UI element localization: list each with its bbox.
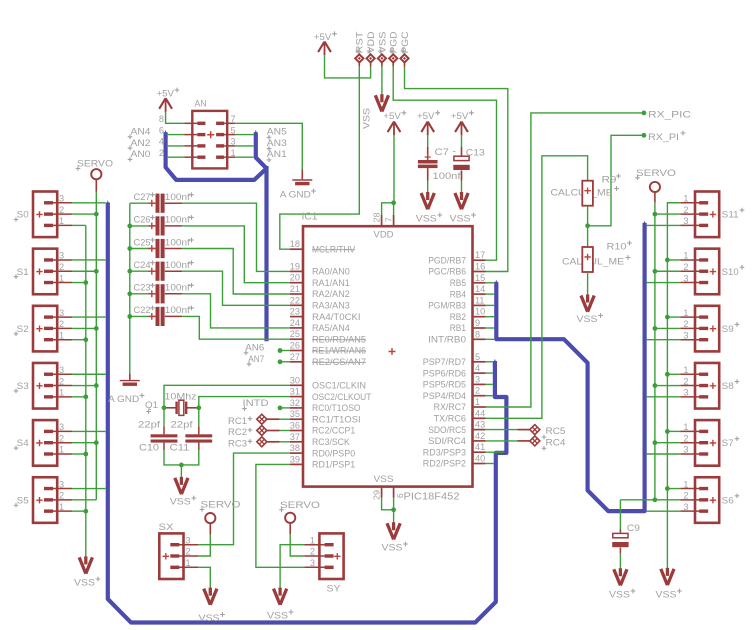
junction xyxy=(278,348,283,353)
ground VSS (crystal) xyxy=(170,477,196,507)
wire S6 pin2 to +5V rail xyxy=(655,499,680,501)
connector S10 xyxy=(680,249,744,295)
svg-text:36: 36 xyxy=(290,421,300,431)
connector AN header xyxy=(159,99,236,169)
wire S2 pin3 to bus xyxy=(72,316,106,318)
power +5V (AN pin 8) xyxy=(157,88,180,112)
svg-text:VSS: VSS xyxy=(74,578,95,588)
svg-text:1: 1 xyxy=(231,148,236,158)
svg-text:2: 2 xyxy=(59,262,64,272)
pin 7 VDD (top) xyxy=(384,215,393,227)
svg-text:44: 44 xyxy=(475,408,485,418)
ground VSS (C13) xyxy=(450,192,476,224)
pin 6 VSS (bottom) xyxy=(394,486,405,498)
svg-text:R10: R10 xyxy=(607,242,627,252)
bus AN right segment xyxy=(256,132,267,168)
svg-text:AN3: AN3 xyxy=(267,138,287,148)
svg-text:42: 42 xyxy=(475,431,485,441)
svg-text:INT/RB0: INT/RB0 xyxy=(428,335,466,345)
capacitor C10 xyxy=(138,408,177,453)
svg-text:1: 1 xyxy=(683,422,688,432)
pin 37 RC3/SCK xyxy=(290,432,351,447)
svg-text:AN6: AN6 xyxy=(245,343,264,353)
svg-text:AN4: AN4 xyxy=(131,127,151,137)
svg-text:32: 32 xyxy=(290,398,300,408)
svg-text:RC4: RC4 xyxy=(546,437,566,447)
junction xyxy=(127,224,132,229)
svg-text:3: 3 xyxy=(683,273,688,283)
svg-text:RE2/CS/AN7: RE2/CS/AN7 xyxy=(312,357,366,367)
pin 43 SDO/RC5 xyxy=(428,420,485,435)
capacitor C27 xyxy=(130,192,194,213)
svg-text:OSC1/CLKIN: OSC1/CLKIN xyxy=(312,381,366,391)
svg-text:RA0/AN0: RA0/AN0 xyxy=(312,267,350,277)
svg-text:6: 6 xyxy=(159,125,164,135)
connector S4 xyxy=(14,420,72,466)
pin 32 RC0/T1OSO xyxy=(290,398,361,413)
node AN6 xyxy=(244,343,290,356)
wire S11 pin3 to bus xyxy=(647,224,681,226)
port RC1 xyxy=(228,414,267,426)
wire SERVO to SX pin2 xyxy=(198,535,210,556)
pad PGC xyxy=(400,31,410,66)
junction xyxy=(653,497,658,502)
junction xyxy=(94,383,99,388)
svg-text:3: 3 xyxy=(59,194,64,204)
svg-text:RB4: RB4 xyxy=(450,289,466,299)
svg-text:35: 35 xyxy=(290,409,300,419)
svg-text:RD1/PSP1: RD1/PSP1 xyxy=(312,460,355,470)
connector SX xyxy=(159,522,199,579)
svg-text:40: 40 xyxy=(475,454,485,464)
wire C26 to PIC xyxy=(182,226,290,283)
svg-text:PSP4/RD4: PSP4/RD4 xyxy=(423,391,466,401)
svg-text:2: 2 xyxy=(683,205,688,215)
wire S8 pin2 to +5V rail xyxy=(655,385,680,387)
svg-text:1: 1 xyxy=(683,251,688,261)
svg-text:39: 39 xyxy=(290,454,300,464)
wire RX_PIC to pin 1 RX/RC7 xyxy=(485,113,644,407)
svg-text:VSS: VSS xyxy=(267,611,288,621)
svg-text:3: 3 xyxy=(186,535,191,545)
wire S3 pin1 to VSS rail xyxy=(72,396,86,398)
pin 2 PSP4/RD4 xyxy=(423,386,486,401)
wire S9 pin3 to bus xyxy=(647,339,681,341)
svg-text:VSS: VSS xyxy=(577,314,598,324)
svg-text:S1: S1 xyxy=(17,267,29,277)
wire S10 pin2 to +5V rail xyxy=(655,270,680,272)
wire S0 pin1 to VSS rail xyxy=(72,224,86,226)
svg-text:9: 9 xyxy=(475,318,480,328)
svg-text:18: 18 xyxy=(290,239,300,249)
power +5V (top) xyxy=(314,31,337,55)
ground VSS (R10) xyxy=(577,295,603,325)
wire S2 pin2 to +5V rail xyxy=(72,327,96,329)
connector S3 xyxy=(14,363,72,409)
pin 27 RE2/CS/AN7 xyxy=(290,352,366,367)
svg-text:RC3: RC3 xyxy=(228,438,247,448)
wire VSS pins to ground xyxy=(382,498,396,524)
svg-text:SDI/RC4: SDI/RC4 xyxy=(428,436,466,446)
svg-text:A GND: A GND xyxy=(280,190,311,200)
wire VDD pad to +5V xyxy=(325,55,371,78)
svg-text:100nf: 100nf xyxy=(165,215,190,225)
pin 36 RC2/CCP1 xyxy=(290,421,355,436)
svg-text:20: 20 xyxy=(290,273,300,283)
pin 16 PGC/RB6 xyxy=(428,262,485,277)
svg-text:RC1: RC1 xyxy=(228,416,247,426)
junction xyxy=(83,452,88,457)
port RC4 xyxy=(530,436,566,451)
junction xyxy=(665,258,670,263)
junction xyxy=(94,326,99,331)
svg-text:IC1: IC1 xyxy=(302,212,318,223)
svg-text:RC0/T1OSO: RC0/T1OSO xyxy=(312,403,361,413)
svg-text:C13: C13 xyxy=(466,147,485,157)
svg-text:2: 2 xyxy=(683,262,688,272)
connector S1 xyxy=(14,249,72,295)
svg-text:S4: S4 xyxy=(17,438,29,448)
svg-text:SERVO: SERVO xyxy=(280,500,320,510)
connector S8 xyxy=(680,363,739,409)
wire caps to VSS xyxy=(164,443,199,478)
label AN3 xyxy=(267,138,287,151)
pin 4 PSP6/RD6 xyxy=(423,363,486,378)
svg-text:RA5/AN4: RA5/AN4 xyxy=(312,323,350,333)
svg-text:2: 2 xyxy=(475,386,480,396)
svg-text:S9: S9 xyxy=(722,324,734,334)
pin 42 SDI/RC4 xyxy=(428,431,485,446)
pin 29 VSS (bottom) xyxy=(373,486,382,500)
junction xyxy=(653,440,658,445)
wire S7 pin3 to bus xyxy=(647,453,681,455)
capacitor C7 xyxy=(418,147,449,168)
wire SERVO to SY pin2 xyxy=(290,534,304,556)
svg-text:C9: C9 xyxy=(627,523,640,533)
ground AGND (caps) xyxy=(108,374,144,404)
wire +5V to C7 xyxy=(427,135,429,147)
wire S11 pin2 to +5V rail xyxy=(655,213,680,215)
svg-text:100nf: 100nf xyxy=(433,171,462,181)
svg-text:10: 10 xyxy=(475,307,485,317)
svg-text:RC3/SCK: RC3/SCK xyxy=(312,437,351,447)
svg-text:S6: S6 xyxy=(722,495,734,505)
svg-text:3: 3 xyxy=(683,388,688,398)
junction xyxy=(94,440,99,445)
svg-text:2: 2 xyxy=(310,547,315,557)
wire C27 to PIC xyxy=(182,203,290,271)
svg-text:RC2: RC2 xyxy=(228,427,247,437)
junction xyxy=(585,223,590,228)
pin 23 RA4/T0CKI xyxy=(290,307,361,322)
wire S8 pin3 to bus xyxy=(647,396,681,398)
bus AN vertical xyxy=(264,166,268,341)
svg-text:AN2: AN2 xyxy=(131,138,151,148)
svg-text:5: 5 xyxy=(231,125,236,135)
junction xyxy=(665,486,670,491)
ground VSS (right rail) xyxy=(656,568,682,600)
pin 28 VDD (top) xyxy=(373,212,382,227)
pin 1 RX/RC7 xyxy=(434,397,486,412)
svg-text:25: 25 xyxy=(290,329,300,339)
svg-text:VSS: VSS xyxy=(382,543,403,553)
junction xyxy=(653,212,658,217)
svg-text:43: 43 xyxy=(475,420,485,430)
svg-text:C23: C23 xyxy=(134,283,151,293)
wire PGD net to pin 17 xyxy=(393,67,496,261)
ground VSS (left rail) xyxy=(74,556,100,587)
pin 39 RD1/PSP1 xyxy=(290,454,355,469)
svg-text:A GND: A GND xyxy=(108,394,139,404)
svg-text:100nf: 100nf xyxy=(165,283,190,293)
connector S0 xyxy=(14,192,72,238)
svg-text:2: 2 xyxy=(59,205,64,215)
wire pin 42 to RC4 port xyxy=(485,440,530,442)
svg-text:RA3/AN3: RA3/AN3 xyxy=(312,301,350,311)
pin 35 RC1/T1OSI xyxy=(290,409,361,424)
svg-text:S11: S11 xyxy=(722,210,739,220)
junction xyxy=(83,280,88,285)
IC U1 PIC18F452 body xyxy=(302,212,473,503)
junction xyxy=(653,269,658,274)
ground VSS (SX) xyxy=(199,588,225,623)
svg-text:17: 17 xyxy=(475,250,485,260)
junction xyxy=(391,200,396,205)
svg-text:3: 3 xyxy=(59,479,64,489)
svg-text:RX_PIC: RX_PIC xyxy=(648,110,691,120)
svg-text:3: 3 xyxy=(683,330,688,340)
wire C9 to VSS xyxy=(619,548,621,570)
capacitor C22 xyxy=(130,305,194,326)
capacitor C23 xyxy=(130,283,194,304)
node RX_PIC xyxy=(642,110,692,120)
svg-text:24: 24 xyxy=(290,318,300,328)
wire AN pin 5 AN5 xyxy=(235,134,253,136)
svg-text:R9: R9 xyxy=(602,175,617,185)
svg-text:AN5: AN5 xyxy=(267,127,287,137)
svg-text:S7: S7 xyxy=(722,438,734,448)
svg-text:C27: C27 xyxy=(134,192,151,202)
svg-text:4: 4 xyxy=(475,363,480,373)
capacitor C13 branch +5V xyxy=(451,110,474,135)
junction xyxy=(196,405,201,410)
wire S9 pin2 to +5V rail xyxy=(655,327,680,329)
svg-text:RB1: RB1 xyxy=(450,323,466,333)
junction xyxy=(278,406,283,411)
wire RD3/RD2 bus entries xyxy=(485,452,504,463)
svg-text:27: 27 xyxy=(290,352,300,362)
svg-text:11: 11 xyxy=(475,295,485,305)
label AN5 xyxy=(267,127,287,140)
svg-text:VDD: VDD xyxy=(374,230,394,240)
wire +5V to VDD pins xyxy=(393,135,395,203)
svg-text:+5V: +5V xyxy=(157,89,175,99)
svg-text:2: 2 xyxy=(59,319,64,329)
svg-text:RB5: RB5 xyxy=(450,278,466,288)
svg-text:RX_PI: RX_PI xyxy=(648,132,679,142)
svg-text:3: 3 xyxy=(310,558,315,568)
pin 9 RB1 xyxy=(450,318,486,333)
junction xyxy=(179,463,184,468)
connector S5 xyxy=(14,477,72,523)
svg-text:1: 1 xyxy=(683,194,688,204)
svg-text:2: 2 xyxy=(683,491,688,501)
port RC3 xyxy=(228,437,267,449)
svg-text:RC5: RC5 xyxy=(546,426,566,436)
wire +5V rail to C9 xyxy=(620,497,657,529)
wire C22 to PIC xyxy=(182,316,290,339)
junction xyxy=(127,291,132,296)
svg-text:SY: SY xyxy=(327,584,341,594)
svg-text:AN7: AN7 xyxy=(248,354,264,364)
capacitor C24 xyxy=(130,260,194,281)
pad VDD xyxy=(366,31,376,67)
svg-text:RA2/AN2: RA2/AN2 xyxy=(312,289,350,299)
pin 25 RE0/RD/AN5 xyxy=(290,329,366,344)
label AN4 xyxy=(128,127,151,140)
svg-text:S5: S5 xyxy=(17,495,29,505)
svg-text:1: 1 xyxy=(683,308,688,318)
wire S7 pin2 to +5V rail xyxy=(655,442,680,444)
svg-text:3: 3 xyxy=(59,308,64,318)
svg-text:16: 16 xyxy=(475,262,485,272)
svg-text:S3: S3 xyxy=(17,381,29,391)
ground VSS (SY) xyxy=(267,588,293,621)
wire S3 pin3 to bus xyxy=(72,373,106,375)
svg-text:2: 2 xyxy=(59,376,64,386)
svg-text:1: 1 xyxy=(310,535,315,545)
ground VSS (below pads) xyxy=(375,94,388,111)
pad PGD xyxy=(389,31,399,66)
pin 26 RE1/WR/AN6 xyxy=(290,341,366,356)
svg-text:23: 23 xyxy=(290,307,300,317)
power +5V (VDD pin 28) xyxy=(383,110,406,135)
pin 14 RB4 xyxy=(450,284,486,299)
wire C24 to PIC xyxy=(182,271,290,305)
junction xyxy=(653,383,658,388)
svg-text:SERVO: SERVO xyxy=(77,159,113,169)
wire S5 pin3 to bus xyxy=(72,488,106,490)
wire AN pin 2 AN0 xyxy=(168,156,184,158)
svg-text:100nf: 100nf xyxy=(165,260,190,270)
svg-text:3: 3 xyxy=(59,365,64,375)
svg-text:VSS: VSS xyxy=(416,214,437,224)
bus servo left and bottom xyxy=(108,203,507,623)
wire S6 pin1 to VSS rail xyxy=(667,488,680,490)
svg-text:SERVO: SERVO xyxy=(636,168,676,178)
svg-text:RC1/T1OSI: RC1/T1OSI xyxy=(312,414,361,424)
svg-text:Q1: Q1 xyxy=(145,400,158,410)
svg-text:1: 1 xyxy=(475,397,480,407)
svg-text:RE0/RD/AN5: RE0/RD/AN5 xyxy=(312,334,366,344)
wire C7 to VSS xyxy=(427,168,429,193)
svg-text:RA1/AN1: RA1/AN1 xyxy=(312,278,350,288)
capacitor C7 branch +5V xyxy=(417,110,440,135)
wire SX pin1 to VSS xyxy=(198,567,210,588)
svg-text:+5V: +5V xyxy=(451,111,469,121)
svg-text:26: 26 xyxy=(290,341,300,351)
wire S3 pin2 to +5V rail xyxy=(72,385,96,387)
wire VSS rail (right) xyxy=(667,203,678,569)
svg-text:VSS: VSS xyxy=(656,590,677,600)
supply SERVO (left) xyxy=(76,159,113,192)
svg-text:3: 3 xyxy=(683,216,688,226)
svg-text:15: 15 xyxy=(475,273,485,283)
svg-text:PGD: PGD xyxy=(389,31,399,53)
pin 10 RB2 xyxy=(450,307,486,322)
port RC2 xyxy=(228,426,267,438)
svg-text:C26: C26 xyxy=(134,215,151,225)
svg-text:19: 19 xyxy=(290,261,300,271)
pin 19 RA0/AN0 xyxy=(290,261,350,276)
svg-text:2: 2 xyxy=(159,148,164,158)
svg-text:1: 1 xyxy=(59,502,64,512)
svg-text:21: 21 xyxy=(290,284,300,294)
svg-text:3: 3 xyxy=(475,374,480,384)
svg-text:38: 38 xyxy=(290,443,300,453)
connector S11 xyxy=(680,192,744,238)
pin 18 MCLR/THV xyxy=(290,239,356,254)
svg-text:SERVO: SERVO xyxy=(201,500,241,510)
junction xyxy=(83,337,88,342)
pin 8 INT/RB0 xyxy=(428,329,485,344)
bus PIC right ports xyxy=(496,223,644,511)
wire C23 to PIC xyxy=(182,294,290,328)
junction xyxy=(94,269,99,274)
svg-text:RE1/WR/AN6: RE1/WR/AN6 xyxy=(312,346,366,356)
svg-text:100nf: 100nf xyxy=(165,305,190,315)
junction xyxy=(665,372,670,377)
supply SERVO (right) xyxy=(635,168,676,203)
svg-text:3: 3 xyxy=(231,137,236,147)
wire S5 pin1 to VSS rail xyxy=(72,510,86,512)
capacitor C26 xyxy=(130,215,194,236)
pin 20 RA1/AN1 xyxy=(290,273,350,288)
svg-text:SDO/RC5: SDO/RC5 xyxy=(428,425,466,435)
svg-text:RB2: RB2 xyxy=(450,312,466,322)
wire pin 43 to RC5 port xyxy=(485,429,530,431)
svg-text:22: 22 xyxy=(290,295,300,305)
pin 40 RD2/PSP2 xyxy=(423,454,486,469)
port RC5 xyxy=(530,425,566,440)
supply SERVO (SY) xyxy=(279,500,320,535)
resistor R10 xyxy=(562,241,632,272)
wire OSC2 to crystal xyxy=(199,397,290,408)
wire R10 bottom to VSS xyxy=(587,272,589,296)
wire SERVO +5V rail (left) xyxy=(95,192,97,500)
junction xyxy=(127,314,132,319)
wire R9 top to pin 44 TX/RC6 xyxy=(485,156,588,419)
capacitor C11 xyxy=(170,408,213,453)
junction xyxy=(665,429,670,434)
junction xyxy=(642,111,647,116)
svg-text:29: 29 xyxy=(373,490,382,500)
junction xyxy=(83,509,88,514)
wire SY pin1 to VSS xyxy=(280,545,304,589)
wire PGC net to pin 16 xyxy=(405,67,508,272)
wire pin 36 to RC2 port xyxy=(267,430,290,432)
label 100nf (C7) xyxy=(433,171,462,181)
wire AN pin 6 AN4 xyxy=(168,134,184,136)
svg-text:3: 3 xyxy=(59,422,64,432)
svg-text:5: 5 xyxy=(475,352,480,362)
svg-text:S8: S8 xyxy=(722,381,734,391)
svg-text:AN0: AN0 xyxy=(131,149,151,159)
svg-text:3: 3 xyxy=(683,502,688,512)
svg-text:AN: AN xyxy=(195,99,207,109)
pin 24 RA5/AN4 xyxy=(290,318,350,333)
svg-text:VSS: VSS xyxy=(170,497,191,507)
